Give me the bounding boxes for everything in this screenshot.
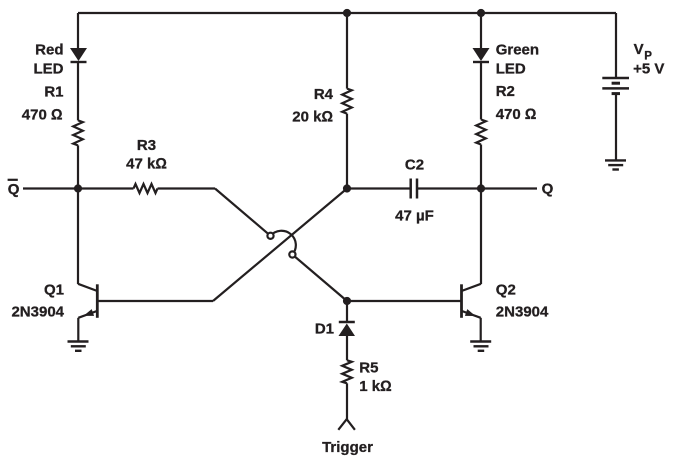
svg-text:47 µF: 47 µF <box>395 207 434 224</box>
svg-text:D1: D1 <box>315 321 334 338</box>
resistor R1 <box>73 120 83 145</box>
diode D1 <box>339 322 356 336</box>
svg-text:1 kΩ: 1 kΩ <box>359 378 391 395</box>
label R3 <box>126 137 167 173</box>
svg-text:47 kΩ: 47 kΩ <box>126 156 167 173</box>
ground battery <box>605 160 626 169</box>
wire Q2 base <box>347 300 462 302</box>
wire diagonal B lower (hop to D1 node) <box>292 255 347 302</box>
wire R5 to trigger <box>346 383 348 419</box>
svg-text:Q2: Q2 <box>496 282 516 299</box>
svg-text:V: V <box>634 41 644 58</box>
trigger arrow <box>338 419 355 430</box>
svg-text:2N3904: 2N3904 <box>496 304 549 321</box>
svg-text:LED: LED <box>34 61 64 78</box>
label C2 <box>395 156 434 224</box>
wire battery drop <box>615 13 617 78</box>
wire green LED to R2 <box>480 62 482 120</box>
svg-text:R1: R1 <box>44 83 63 100</box>
resistor R3 <box>134 184 158 193</box>
svg-text:Q: Q <box>8 181 20 198</box>
label Qbar output <box>8 180 20 198</box>
wire hop arc <box>271 231 296 255</box>
label R4 <box>292 86 333 126</box>
label Q1 <box>11 282 64 321</box>
svg-text:R5: R5 <box>359 359 378 376</box>
svg-text:C2: C2 <box>405 156 424 173</box>
svg-text:2N3904: 2N3904 <box>11 304 64 321</box>
node junction Q <box>477 184 485 192</box>
resistor R2 <box>476 120 486 145</box>
svg-text:R2: R2 <box>496 83 515 100</box>
label Q2 <box>496 282 549 321</box>
wire R3 to bend <box>158 187 216 189</box>
svg-text:Red: Red <box>35 42 63 59</box>
svg-text:Q: Q <box>542 181 554 198</box>
wire diagonal B upper (Qbar rail to hop) <box>215 189 271 236</box>
transistor Q1 <box>78 284 97 341</box>
resistor R5 <box>342 360 352 383</box>
resistor R4 <box>342 89 352 114</box>
wire D1 node down <box>346 301 348 322</box>
wire junction to C2 <box>347 187 410 189</box>
wire red LED to R1 <box>77 62 79 120</box>
node junction top green <box>477 9 485 17</box>
svg-text:Q1: Q1 <box>44 282 64 299</box>
svg-text:+5 V: +5 V <box>633 61 664 78</box>
wire Q stub <box>481 187 537 189</box>
svg-text:Green: Green <box>496 42 539 59</box>
node junction top R4 <box>343 9 351 17</box>
node junction R4-C2 <box>343 184 351 192</box>
wire R2 to Q2 collector <box>480 145 482 285</box>
wire top rail <box>78 12 616 14</box>
capacitor C2 <box>411 179 417 199</box>
svg-text:Trigger: Trigger <box>322 439 373 456</box>
label Green LED <box>496 42 539 78</box>
label VP <box>633 41 664 78</box>
LED D_green (Green LED) <box>473 48 490 62</box>
wire R1 to Q1 collector <box>77 145 79 284</box>
label R5 <box>359 359 391 395</box>
node junction Qbar <box>74 184 82 192</box>
svg-text:R3: R3 <box>137 137 156 154</box>
ground Q2 <box>470 342 491 351</box>
wire R4 drop <box>346 13 348 89</box>
label R1 <box>22 83 64 123</box>
svg-text:LED: LED <box>496 61 526 78</box>
wire Qbar rail left <box>23 187 134 189</box>
wire battery to ground <box>615 94 617 160</box>
label Red LED <box>34 42 64 78</box>
transistor Q2 <box>462 284 482 341</box>
wire D1 to R5 <box>346 336 348 360</box>
svg-text:470 Ω: 470 Ω <box>496 106 537 123</box>
wire C2 to Q node <box>417 187 481 189</box>
label R2 <box>496 83 537 123</box>
wire R4 to junction <box>346 114 348 189</box>
wire green drop <box>480 13 482 48</box>
svg-text:20 kΩ: 20 kΩ <box>292 109 333 126</box>
battery VP <box>602 78 629 88</box>
wire diagonal A (Q1 base to R4 node) <box>213 189 347 302</box>
wire Q1 base <box>97 300 213 302</box>
hop circle 1 <box>267 233 273 239</box>
svg-text:470 Ω: 470 Ω <box>22 107 63 124</box>
ground Q1 <box>68 342 89 351</box>
node junction D1 <box>343 297 351 305</box>
svg-text:R4: R4 <box>314 86 334 103</box>
LED D_red (Red LED) <box>70 48 87 62</box>
wire left branch top <box>77 13 79 48</box>
hop circle 2 <box>289 251 295 257</box>
